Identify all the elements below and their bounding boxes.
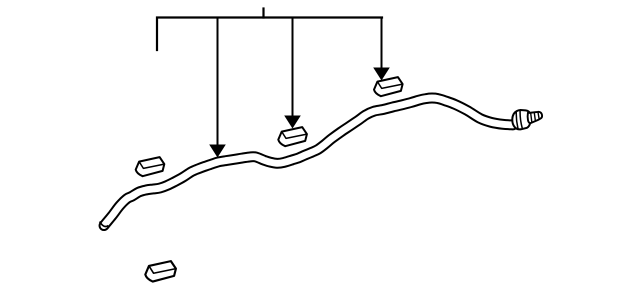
clip C3 xyxy=(374,77,403,96)
leader arrow 3 xyxy=(373,18,390,81)
clip C1 xyxy=(136,157,165,176)
fitting threaded stub xyxy=(528,112,542,123)
tube xyxy=(104,98,513,226)
bracket xyxy=(157,9,382,51)
tube end cap xyxy=(100,222,109,227)
leader arrow 2 xyxy=(284,18,301,129)
fitting nut xyxy=(512,110,530,129)
clip C4 xyxy=(145,261,176,281)
leader arrow 1 xyxy=(209,18,226,158)
clip C2 xyxy=(278,127,307,146)
